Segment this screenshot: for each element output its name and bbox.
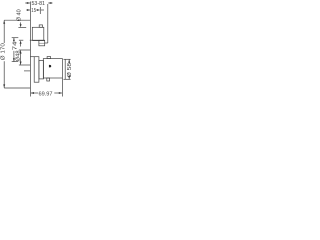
- svg-text:53-81: 53-81: [32, 1, 46, 7]
- svg-text:15: 15: [31, 8, 36, 14]
- svg-text:Ø 40: Ø 40: [17, 9, 23, 21]
- svg-text:69.97: 69.97: [39, 91, 53, 97]
- svg-text:Ø 170: Ø 170: [1, 43, 7, 60]
- svg-text:74: 74: [13, 41, 19, 50]
- svg-text:Ø48: Ø48: [16, 50, 22, 61]
- svg-text:Ø 58: Ø 58: [67, 63, 73, 77]
